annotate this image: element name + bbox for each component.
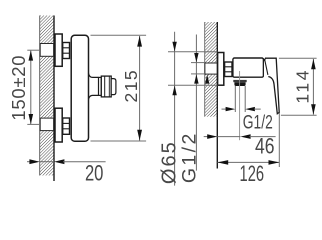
- svg-text:215: 215: [121, 69, 141, 103]
- dimension 215 line: [139, 36, 141, 141]
- faucet body (side view): [71, 35, 88, 141]
- extra arrow at wall edge below inlet: [205, 75, 209, 84]
- hex nut (front): [225, 62, 232, 77]
- dimension 150±20 extension top: [27, 49, 40, 51]
- dimension 20 line with arrows: [27, 159, 106, 164]
- svg-text:150±20: 150±20: [8, 55, 29, 121]
- dimension 114 line: [312, 59, 314, 115]
- dimension 150±20 line: [30, 51, 32, 124]
- arrow down 150±20: [29, 114, 34, 124]
- shower outlet neck (side): [89, 74, 99, 100]
- dimension 150±20 extension bottom: [27, 123, 40, 125]
- dimension Ø65 extension top: [168, 51, 217, 53]
- dimension 215 extension bottom: [91, 140, 147, 142]
- arrow up G1/2 bottom: [194, 74, 198, 83]
- dimension G1/2 inlet extension top: [191, 62, 205, 64]
- dimension 126 line: [217, 160, 279, 165]
- shower outlet ridged collar (side): [101, 76, 111, 97]
- arrow down G1/2 top: [194, 53, 198, 62]
- svg-text:G1/2: G1/2: [243, 112, 273, 133]
- shower outlet cap (side): [111, 79, 116, 95]
- dimension G1/2 inlet extension bottom: [191, 73, 205, 75]
- dimension Ø65 extension bottom: [168, 84, 217, 86]
- arrow up 215: [137, 36, 142, 47]
- svg-text:46: 46: [255, 134, 275, 159]
- arrow up 114: [311, 59, 316, 69]
- inlet notch in wall (front): [205, 63, 217, 74]
- svg-text:Ø65: Ø65: [158, 140, 180, 184]
- svg-text:114: 114: [292, 68, 312, 104]
- svg-text:20: 20: [85, 161, 104, 186]
- shower outlet ring (side): [99, 77, 102, 95]
- arrow down Ø65 top: [172, 42, 176, 52]
- arrow down 114: [311, 104, 316, 114]
- wall (hatched) left view: [40, 16, 54, 182]
- bottom inlet pipe in wall: [40, 118, 53, 131]
- dimension 215 extension top: [91, 34, 147, 36]
- arrow up 150±20: [29, 50, 34, 60]
- arrow up Ø65 bottom: [172, 86, 176, 96]
- arrow down 215: [137, 130, 142, 141]
- escutcheon plate (front, edge-on): [218, 53, 224, 86]
- dimension G1/2 outlet line with arrows: [222, 107, 261, 111]
- valve body (front): [233, 58, 264, 77]
- dimension 46 line: [204, 134, 276, 139]
- svg-text:126: 126: [240, 161, 265, 186]
- bottom hex nut: [63, 118, 70, 134]
- dimension 114 extension top: [279, 57, 317, 59]
- svg-text:G1/2: G1/2: [179, 131, 201, 183]
- top hex nut: [63, 43, 70, 59]
- dimension Ø65 line: [174, 32, 176, 186]
- dimension 114 extension bottom: [281, 114, 317, 116]
- wall (hatched) right view: [205, 22, 218, 169]
- lever handle: [264, 58, 280, 113]
- dimension G1/2 inlet line: [195, 35, 197, 171]
- outlet thread extension right: [244, 86, 246, 112]
- top inlet pipe in wall: [40, 44, 53, 57]
- shower outlet nipple (front, dark): [233, 80, 246, 86]
- outlet centerline: [239, 71, 241, 140]
- outlet thread extension left: [234, 86, 236, 112]
- bottom escutcheon plate: [55, 108, 62, 142]
- extension line lever tip (126): [278, 113, 280, 167]
- top escutcheon plate: [55, 34, 62, 66]
